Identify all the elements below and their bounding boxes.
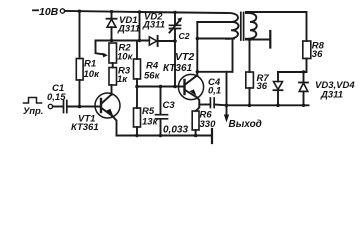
node junction collector/y72 wire bbox=[196, 70, 199, 73]
svg-text:10к: 10к bbox=[84, 69, 101, 80]
svg-text:VT2: VT2 bbox=[175, 51, 194, 63]
resistor R8 bbox=[303, 41, 311, 59]
output arrow bbox=[226, 105, 228, 115]
wire VT1 collector bbox=[111, 85, 113, 95]
wire C1 to VT1 base bbox=[68, 106, 101, 108]
wire primary bottom drop bbox=[232, 39, 234, 72]
svg-text:0,15: 0,15 bbox=[47, 92, 66, 103]
node junction collector/primary bottom bbox=[196, 37, 199, 40]
wire R1 top bbox=[79, 11, 81, 58]
wire bottom rail bbox=[117, 135, 212, 137]
node junction base VT1 / R1 bbox=[78, 105, 82, 109]
node junction top rail x140 bbox=[138, 10, 141, 13]
svg-text:330: 330 bbox=[200, 119, 217, 130]
wire output rail bbox=[214, 104, 308, 107]
resistor R4 bbox=[134, 59, 141, 79]
tap end bar bbox=[269, 31, 271, 48]
wire R5 bottom bbox=[136, 127, 138, 136]
wire top rail bbox=[65, 11, 226, 13]
svg-text:R5: R5 bbox=[142, 106, 155, 117]
node junction R6/bottom rail bbox=[194, 134, 198, 138]
resistor R7 bbox=[246, 72, 254, 88]
wire R4 bottom to R5 bbox=[136, 79, 138, 108]
svg-text:Д311: Д311 bbox=[117, 24, 140, 35]
wire R8 bottom bbox=[306, 59, 308, 73]
capacitor C3 bbox=[160, 87, 162, 115]
node junction top rail VD1 bbox=[110, 10, 113, 13]
svg-text:10к: 10к bbox=[117, 51, 134, 62]
svg-text:0,1: 0,1 bbox=[208, 86, 221, 97]
node junction top rail C2 bbox=[173, 11, 176, 14]
resistor R6 bbox=[192, 111, 199, 130]
capacitor C2 (trimmer) bbox=[174, 12, 176, 25]
terminal Upr bbox=[48, 104, 52, 108]
transformer T1 secondary bbox=[246, 12, 257, 39]
node junction drop/output bbox=[225, 104, 229, 108]
svg-text:C3: C3 bbox=[163, 100, 176, 111]
wire VD2 node down to VT2 base wire bbox=[174, 41, 176, 87]
transistor VT1 bbox=[95, 93, 120, 118]
capacitor C4 bbox=[199, 104, 210, 106]
wire collector node right y72 bbox=[197, 71, 232, 73]
wire secondary top bbox=[246, 11, 306, 13]
resistor R2 (trimmer) bbox=[109, 43, 117, 63]
svg-text:КТ361: КТ361 bbox=[71, 122, 99, 133]
wire node A horizontal y40.5 bbox=[96, 40, 150, 42]
diode VD1 bbox=[111, 12, 113, 19]
svg-text:10В: 10В bbox=[39, 6, 59, 18]
wire Upr to C1 bbox=[53, 106, 63, 108]
wire primary bottom bbox=[197, 38, 234, 40]
wire drop to output bbox=[226, 72, 228, 106]
node junction VD3/output bbox=[276, 104, 280, 108]
node junction C3/bottom rail bbox=[159, 134, 162, 137]
resistor R5 bbox=[134, 108, 141, 127]
capacitor C1 bbox=[64, 101, 67, 113]
svg-text:R1: R1 bbox=[84, 59, 96, 70]
svg-text:C2: C2 bbox=[179, 31, 190, 41]
svg-text:36: 36 bbox=[312, 49, 323, 60]
node junction VD4/diode rail bbox=[302, 70, 305, 73]
node junction rail drop bbox=[138, 39, 141, 42]
node junction R5/bottom rail bbox=[135, 134, 138, 137]
svg-text:Упр.: Упр. bbox=[23, 106, 43, 117]
wire VT2 emitter bbox=[196, 98, 200, 112]
wire collector to transformer tap bbox=[197, 21, 230, 23]
wire VT2 collector up bbox=[196, 22, 198, 76]
diode VD3 bbox=[277, 72, 279, 82]
node junction R7/output bbox=[248, 104, 252, 108]
svg-text:36: 36 bbox=[257, 81, 268, 92]
node junction tap/R7 bbox=[248, 38, 251, 41]
svg-text:56к: 56к bbox=[144, 71, 161, 82]
wire R7 bottom bbox=[249, 88, 251, 105]
wire R6 bottom bbox=[195, 130, 197, 136]
svg-text:Д311: Д311 bbox=[142, 20, 165, 31]
wire diode top rail bbox=[278, 71, 307, 73]
pulse symbol bbox=[24, 98, 42, 104]
node junction VD4/output bbox=[302, 104, 305, 107]
node junction C3 bbox=[159, 85, 163, 89]
svg-text:0,033: 0,033 bbox=[163, 124, 188, 135]
diode VD2 bbox=[149, 37, 157, 45]
node junction top rail R1 bbox=[78, 10, 81, 13]
svg-text:Д311: Д311 bbox=[320, 90, 343, 101]
wire R4 top bbox=[136, 41, 138, 60]
node junction C2/VD2 bbox=[173, 39, 177, 43]
terminal -10V bbox=[60, 9, 64, 13]
wire R2 to R3 bbox=[112, 63, 114, 68]
transistor VT2 bbox=[178, 74, 203, 99]
wire rail to y40 bbox=[139, 12, 141, 41]
svg-text:1к: 1к bbox=[117, 74, 128, 85]
svg-text:Выход: Выход bbox=[229, 119, 262, 130]
resistor R3 bbox=[109, 68, 117, 86]
node junction VD2 drop bbox=[173, 85, 177, 89]
wire R8 top bbox=[306, 12, 308, 41]
bottom rail end bar bbox=[211, 129, 213, 143]
node junction R4/base wire bbox=[135, 85, 139, 89]
wire VD2 cathode to C2 node bbox=[158, 40, 175, 42]
wire secondary bottom tap bbox=[246, 38, 270, 41]
svg-text:КТ361: КТ361 bbox=[163, 63, 193, 74]
transformer core bbox=[241, 13, 244, 41]
wire R1 bottom bbox=[79, 80, 81, 107]
wire VT2 base bbox=[137, 86, 185, 88]
diode VD4 bbox=[303, 72, 305, 82]
transformer T1 primary bbox=[226, 13, 239, 39]
resistor R1 bbox=[76, 59, 83, 81]
node junction VD1/R2 bbox=[110, 39, 113, 42]
wire secondary bottom to R7 bbox=[249, 40, 251, 73]
